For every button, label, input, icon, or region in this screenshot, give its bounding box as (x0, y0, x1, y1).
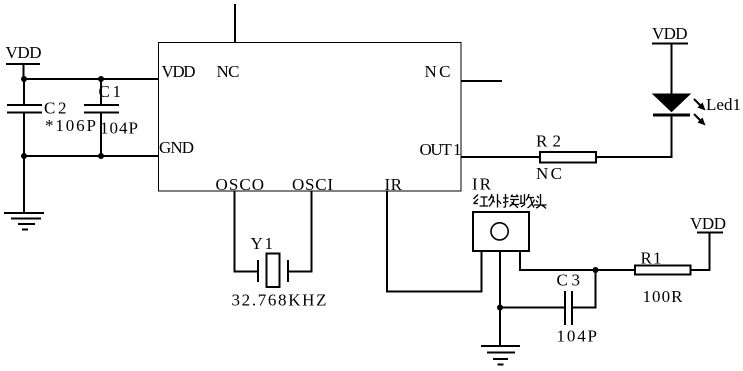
svg-text:IR: IR (472, 175, 492, 194)
wire R1 to VDD (692, 233, 710, 271)
svg-text:VDD: VDD (652, 24, 688, 43)
wire C1 top lead (100, 79, 102, 105)
capacitor C2 (7, 105, 42, 113)
IC U1 body (159, 43, 462, 192)
svg-text:VDD: VDD (690, 214, 726, 233)
wire C2 top lead (23, 79, 25, 105)
svg-text:R1: R1 (641, 249, 662, 268)
ground (under receiver) (481, 346, 520, 365)
capacitor C1 (84, 105, 119, 113)
junction VDD rail / C2 (21, 76, 27, 82)
resistor R1 (635, 266, 691, 275)
junction C3 / R1 wire (593, 267, 599, 273)
svg-text:*106P: *106P (45, 116, 96, 135)
svg-text:OUT 1: OUT 1 (420, 140, 462, 159)
svg-text:104P: 104P (100, 119, 138, 138)
外 (489, 194, 502, 208)
svg-text:C3: C3 (557, 271, 581, 290)
IR receiver U2 body (473, 212, 529, 251)
IR receiver label 红外接收头 (474, 194, 547, 209)
svg-text:OSCO: OSCO (216, 175, 265, 194)
ground (left) (4, 213, 44, 230)
capacitor C3 (565, 291, 572, 325)
power VDD (top-right) (652, 24, 688, 44)
wire VDD rail to U1 VDD pin (24, 78, 159, 80)
wire U1 right NC pin stub (461, 80, 502, 82)
junction GND rail / C1 (98, 153, 104, 159)
svg-text:32.768KHZ: 32.768KHZ (232, 291, 327, 310)
收 (520, 194, 535, 208)
头 (534, 194, 547, 209)
crystal Y1 (258, 254, 288, 288)
junction VDD rail / C1 (98, 76, 104, 82)
接 (503, 194, 519, 208)
wire to ground (left) (23, 156, 25, 213)
resistor R2 (540, 152, 596, 163)
wire C3 right lead up to OUT net (572, 270, 596, 308)
junction GND rail / C2 (21, 153, 27, 159)
红 (474, 195, 489, 207)
power VDD (right) (690, 214, 726, 233)
svg-text:OSCI: OSCI (292, 175, 333, 194)
svg-text:VDD: VDD (6, 43, 42, 62)
wire receiver right lead to R1 (520, 252, 634, 270)
svg-text:C1: C1 (99, 82, 122, 101)
wire OUT1 to R2 (461, 156, 539, 158)
wire U1 IR pin to receiver (387, 191, 482, 291)
svg-text:R2: R2 (536, 132, 561, 151)
wire LED anode to VDD (671, 44, 673, 95)
diode Led1 (LED) (653, 94, 706, 126)
svg-text:Y1: Y1 (251, 234, 274, 253)
wire R2 to LED cathode (597, 116, 672, 157)
wire OSCI pin down and left (288, 191, 312, 272)
svg-text:NC: NC (536, 164, 562, 183)
svg-text:NC: NC (425, 62, 451, 81)
svg-text:104P: 104P (557, 327, 598, 346)
wire C2 bottom lead (23, 113, 25, 157)
svg-text:NC: NC (217, 62, 240, 81)
svg-text:VDD: VDD (162, 62, 196, 81)
wire OSCO pin down and right (235, 191, 259, 272)
wire receiver middle lead to ground (499, 252, 501, 346)
junction receiver middle lead / C3 (497, 305, 503, 311)
svg-text:100R: 100R (643, 287, 684, 306)
wire U1 top NC pin (234, 4, 236, 42)
wire C1 bottom lead (100, 113, 102, 157)
power VDD (top-left) (6, 43, 42, 79)
svg-text:GND: GND (159, 138, 194, 157)
svg-text:C2: C2 (44, 99, 67, 118)
wire C3 left lead (500, 307, 565, 309)
svg-text:Led1: Led1 (706, 95, 741, 114)
wire GND rail to U1 GND pin (24, 155, 158, 157)
